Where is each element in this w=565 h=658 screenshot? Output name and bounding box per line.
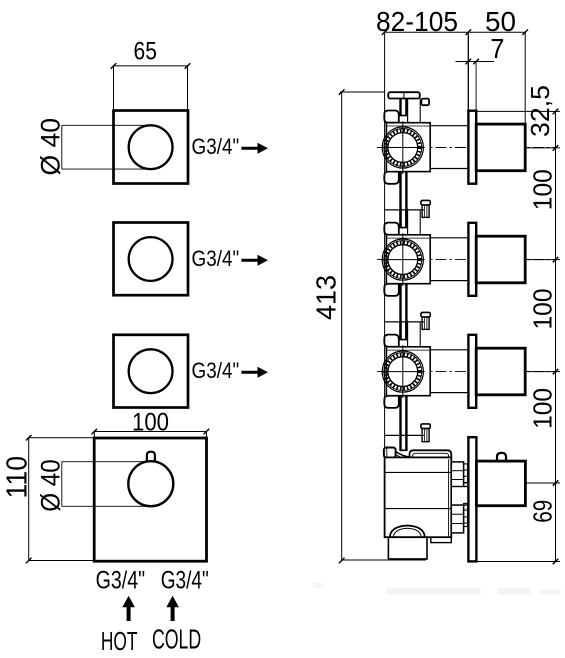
cartridge 2 body top inner line — [386, 237, 430, 239]
cartridge 1 bottom ear — [384, 172, 399, 184]
chain tick line y=147.9 — [526, 147, 560, 149]
thermo handle button — [497, 453, 506, 461]
svg-text:100: 100 — [528, 388, 558, 429]
dim 7 line — [456, 61, 495, 63]
dia40 bottom callout bottom tangent — [62, 505, 151, 507]
dim 110 tick bottom — [26, 558, 32, 564]
cartridge 2 side fitting inner lines — [424, 205, 426, 217]
cartridge 3 body top inner line — [386, 349, 430, 351]
svg-text:32,5: 32,5 — [525, 85, 555, 137]
cartridge 3 vertical centerline — [402, 345, 404, 398]
thermo knob button — [147, 452, 155, 461]
cartridge 3 handle — [476, 348, 525, 395]
cartridge 3 wall plate edge-on — [468, 335, 476, 408]
thermo top plane line — [385, 434, 424, 436]
dim 65 extension left — [113, 66, 115, 111]
chain oblique tick y=259.6 — [553, 257, 559, 263]
thermo side fitting cap — [421, 424, 430, 429]
thermo left hex fitting inner line — [386, 448, 388, 458]
dim 110 extension top — [29, 437, 95, 439]
knob circle 3 — [129, 349, 173, 393]
cartridge 2 back rail right line — [419, 211, 421, 235]
cartridge 3 side fitting body — [422, 317, 429, 329]
thermo side fitting body — [422, 429, 429, 442]
cartridge 2 screw foot — [399, 227, 407, 229]
thermo nub column lower — [464, 503, 468, 526]
cartridge 2 port thread ring — [386, 243, 420, 277]
cartridge 2 vertical centerline — [402, 233, 404, 286]
dim 110 tick top — [26, 435, 32, 441]
cartridge 3 centerline (dash-dot) — [377, 371, 556, 373]
chain oblique tick y=483.0 — [553, 480, 559, 486]
cartridge 2 centerline (dash-dot) — [377, 259, 556, 261]
chain tick line y=371.6 — [526, 371, 560, 373]
svg-text:G3/4": G3/4" — [161, 566, 209, 594]
cartridge 1 port outer circle — [382, 127, 423, 168]
chain oblique tick y=147.9 — [553, 145, 559, 151]
knob circle 1 — [129, 125, 173, 169]
cartridge 1 screw foot — [399, 115, 407, 117]
dia40 bottom callout connector — [61, 462, 63, 507]
right chain vertical line — [555, 111, 557, 561]
cartridge 3 crosshair horizontal — [381, 371, 425, 373]
thermo block inner line 1 — [385, 471, 452, 473]
dia40 callout bottom tangent line — [62, 168, 151, 170]
svg-text:G3/4": G3/4" — [192, 358, 240, 383]
svg-text:82-105: 82-105 — [376, 6, 458, 37]
chain tick line y=483 — [525, 482, 560, 484]
dim 413 extension bottom — [342, 559, 426, 561]
svg-text:100: 100 — [528, 289, 558, 330]
thermo arch outer — [390, 526, 425, 538]
svg-text:HOT: HOT — [101, 626, 138, 656]
square plate 1 — [114, 111, 189, 184]
dim 82-105/50 line — [385, 31, 526, 33]
knob circle 2 — [129, 237, 173, 281]
chain tick line y=111.4 (plate top) — [472, 110, 561, 112]
cartridge 1 crosshair vertical — [402, 122, 404, 173]
svg-text:Ø 40: Ø 40 — [35, 459, 65, 512]
cartridge 1 vertical centerline — [402, 121, 404, 174]
thermo top cap — [410, 450, 452, 459]
cartridge 2 port inner circle — [388, 245, 418, 275]
tick at 468.3 — [466, 29, 472, 35]
chain oblique tick y=561.5 — [553, 559, 559, 565]
cartridge 1 port thread ring — [386, 131, 420, 165]
thermo foot — [388, 537, 427, 559]
cartridge 1 back rail right line — [419, 99, 421, 123]
tick at 525.2 — [522, 29, 528, 35]
pipe bars foot — [399, 449, 407, 451]
thermo cap inner line — [413, 453, 449, 459]
cartridge 2 port outer circle — [382, 239, 423, 280]
thermo handle — [476, 461, 525, 506]
dim 65 extension right — [187, 66, 189, 111]
cartridge 3 crosshair vertical — [402, 346, 404, 397]
cartridge 2 sleeve top line — [430, 237, 468, 239]
cartridge 2 back rail left line — [407, 211, 409, 235]
thermo right small tab below block — [431, 537, 452, 542]
svg-text:69: 69 — [528, 500, 558, 523]
cartridge 3 sleeve top line — [430, 349, 468, 351]
svg-text:G3/4": G3/4" — [192, 134, 240, 159]
wall line x=468.3 — [467, 32, 469, 111]
dim 65 line — [114, 65, 188, 67]
dia40 callout top tangent line — [62, 124, 151, 126]
thermo centerline (dash-dot) — [440, 482, 556, 484]
cartridge 3 screw foot — [399, 339, 407, 341]
cartridge 3 cap plane line — [385, 321, 424, 323]
svg-text:110: 110 — [2, 456, 34, 499]
cartridge 1 screw left bar — [399, 99, 401, 116]
cartridge 1 sleeve top line — [430, 125, 468, 127]
dim 413 extension top — [340, 91, 385, 93]
G3/4 arrow row2 — [241, 259, 258, 262]
cartridge 2 crosshair horizontal — [381, 259, 425, 261]
extension x=525.2 (50 right / handle front) — [524, 32, 526, 124]
cartridge 2 wall plate edge-on — [468, 223, 476, 296]
thermo side fitting inner lines — [424, 429, 426, 442]
chain oblique tick y=371.6 — [553, 369, 559, 375]
cartridge 1 top ear — [384, 111, 399, 123]
svg-text:100: 100 — [528, 169, 558, 210]
cartridge 1 sleeve bottom line — [430, 168, 468, 170]
extension x=476.1 (plate front) — [475, 62, 477, 111]
thermo block inner line 2 — [385, 508, 452, 510]
cartridge 3 back rail right line — [419, 323, 421, 347]
dim 100 line — [94, 431, 206, 433]
cartridge 3 port inner circle — [388, 357, 418, 387]
cartridge 3 screw left bar — [399, 321, 401, 340]
thermo neck curve 2 — [396, 455, 410, 460]
thermo nub column upper — [464, 464, 468, 483]
cartridge 2 screw left bar — [399, 209, 401, 228]
thermo block body — [385, 457, 452, 537]
cartridge 1 screw right bar — [405, 99, 407, 116]
connecting pipe bars below cartridge 1 — [399, 172, 401, 228]
cartridge 1 wall plate edge-on — [468, 111, 476, 184]
cartridge 1 crosshair horizontal — [381, 147, 425, 149]
cartridge 1 body top inner line — [386, 125, 430, 127]
cartridge 2 crosshair vertical — [402, 234, 404, 285]
thermo neck curve — [396, 452, 410, 457]
cartridge 2 screw right bar — [405, 209, 407, 228]
thermo mid tab — [451, 487, 468, 506]
hot inlet arrow up — [127, 605, 131, 621]
chain oblique tick y=111.4 — [553, 109, 559, 115]
cartridge 3 side fitting inner lines — [424, 317, 426, 329]
svg-text:100: 100 — [132, 410, 169, 437]
dim 110 vertical line — [28, 438, 30, 561]
cartridge 3 port outer circle — [382, 351, 423, 392]
connecting pipe bars below cartridge 3 — [399, 396, 401, 450]
svg-text:7: 7 — [490, 33, 504, 64]
chain tick line y=561.5 (plate bottom) — [468, 561, 561, 563]
cartridge 1 cap split line — [403, 92, 405, 98]
cartridge 3 screw right bar — [405, 321, 407, 340]
cold inlet arrow up — [171, 605, 175, 621]
dim 413 tick top — [339, 89, 345, 95]
cartridge 1 back rail left line — [407, 99, 409, 123]
svg-text:65: 65 — [134, 39, 157, 66]
svg-text:COLD: COLD — [152, 624, 201, 655]
dim 7 tick left — [466, 59, 472, 65]
cartridge 2 side fitting cap — [421, 200, 430, 205]
thermo left hex fitting — [384, 448, 396, 458]
cartridge 2 side fitting body — [422, 205, 429, 217]
thermo arch inner — [393, 528, 421, 537]
cartridge 2 handle — [476, 236, 525, 283]
cartridge 1 centerline (dash-dot) — [377, 147, 556, 149]
dim 100 tick left — [92, 429, 98, 435]
cartridge 3 body — [386, 347, 430, 396]
dim 100 tick right — [204, 429, 210, 435]
cartridge 2 bottom ear — [384, 284, 399, 296]
chain tick line y=259.6 — [526, 259, 560, 261]
dim 65 tick left — [111, 63, 117, 69]
dim 110 extension bottom — [29, 560, 95, 562]
cartridge 3 top ear — [384, 335, 399, 347]
cartridge 3 sleeve bottom line — [430, 392, 468, 394]
faint watermark smudges — [313, 583, 561, 595]
thermo wall plate edge-on — [468, 437, 476, 561]
dim 413 tick bottom — [339, 558, 345, 564]
extension line x=384.6 (82-105 left, body edge) — [384, 32, 386, 457]
cartridge 1 handle — [476, 124, 525, 171]
cartridge 3 bottom ear — [384, 396, 399, 408]
svg-text:G3/4": G3/4" — [96, 566, 146, 594]
thermo block right inner edge — [448, 459, 450, 537]
cartridge 3 side fitting cap — [421, 312, 430, 317]
thermo rib lines — [451, 470, 463, 472]
dim 100 extension right — [205, 432, 207, 439]
cartridge 1 right tab — [421, 99, 429, 106]
cartridge 2 cap plane line — [385, 209, 424, 211]
cartridge 1 body — [386, 123, 430, 172]
thermo rib stack outer — [451, 462, 463, 533]
cartridge 2 top ear — [384, 223, 399, 235]
G3/4 arrow row1 — [241, 147, 258, 150]
cartridge 2 body — [386, 235, 430, 284]
cartridge 3 back rail left line — [407, 323, 409, 347]
cartridge 3 port thread ring — [386, 355, 420, 389]
cartridge 1 top cap — [388, 92, 420, 98]
dim 7 tick right — [473, 59, 479, 65]
G3/4 arrow row3 — [241, 371, 258, 374]
svg-text:413: 413 — [311, 275, 342, 320]
thermo knob circle — [128, 461, 173, 506]
square plate 3 — [114, 335, 189, 408]
svg-text:Ø 40: Ø 40 — [36, 118, 66, 176]
dia40 bottom callout top tangent — [62, 461, 151, 463]
dim 65 tick right — [185, 63, 191, 69]
dim 100 extension left — [93, 432, 95, 439]
connecting pipe bars below cartridge 2 — [399, 284, 401, 339]
cartridge 2 sleeve bottom line — [430, 280, 468, 282]
square plate 2 — [114, 223, 189, 296]
big square plate — [94, 438, 206, 561]
svg-text:G3/4": G3/4" — [192, 246, 240, 271]
dia40 callout connector — [61, 125, 63, 169]
cartridge 1 port inner circle — [388, 133, 418, 163]
dim 413 vertical line — [341, 92, 343, 561]
tick at 384.6 — [382, 29, 388, 35]
